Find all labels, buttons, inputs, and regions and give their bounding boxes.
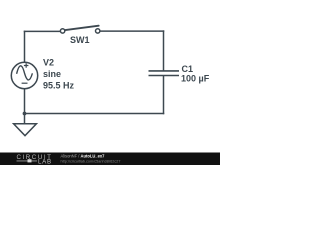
svg-text:AlisonNF / AutoLU_ex7: AlisonNF / AutoLU_ex7 <box>61 154 106 159</box>
switch SW1 <box>60 26 100 33</box>
wire: bottom rail from bottom-right corner to ground junction <box>25 113 164 115</box>
footer bar <box>0 153 220 166</box>
svg-text:LAB: LAB <box>38 158 52 165</box>
wire: top rail, SW1 right contact to top-right corner <box>100 30 163 32</box>
wire: V2 bottom terminal down to ground junction <box>24 89 26 114</box>
wire: V2 top terminal to top-left corner <box>24 31 26 62</box>
svg-text:V2: V2 <box>43 58 54 68</box>
wire: top rail, corner to SW1 left contact <box>25 30 61 32</box>
svg-text:sine: sine <box>43 69 61 79</box>
capacitor C1 <box>149 71 180 76</box>
wire: right rail, top-right corner down to C1 top plate <box>163 31 165 71</box>
svg-text:95.5 Hz: 95.5 Hz <box>43 81 75 91</box>
svg-text:100 µF: 100 µF <box>181 73 210 83</box>
svg-text:http://circuitlab.com/c5anh38r: http://circuitlab.com/c5anh38r62c27 <box>61 160 121 164</box>
CircuitLab logo <box>17 154 53 165</box>
voltage source V2 (sine) <box>11 62 37 88</box>
ground symbol <box>14 124 37 136</box>
junction node: V2/ground/bottom rail <box>23 112 27 116</box>
wire: ground stub below junction <box>24 114 26 124</box>
svg-text:SW1: SW1 <box>70 35 90 45</box>
wire: right rail, C1 bottom plate down to bottom-right corner <box>163 76 165 114</box>
